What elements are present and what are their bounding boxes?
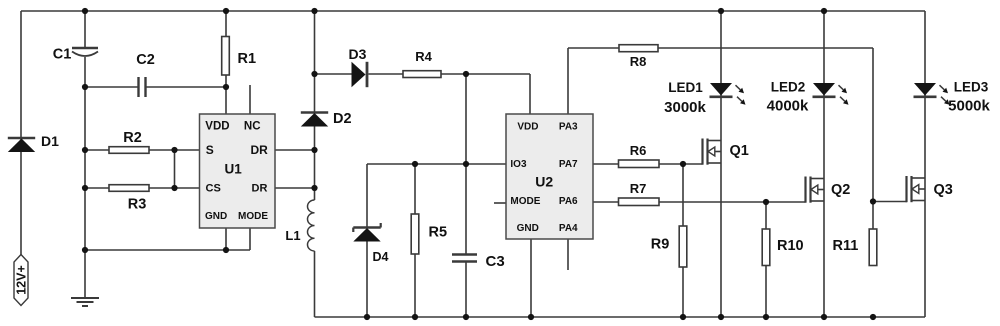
svg-text:S: S	[206, 143, 214, 157]
svg-text:GND: GND	[517, 223, 539, 234]
svg-text:D2: D2	[333, 111, 352, 127]
svg-text:D3: D3	[349, 46, 367, 62]
svg-text:R9: R9	[651, 237, 670, 253]
svg-text:LED3: LED3	[954, 80, 989, 95]
svg-text:MODE: MODE	[238, 211, 268, 222]
svg-text:IO3: IO3	[510, 159, 527, 170]
svg-text:CS: CS	[206, 183, 221, 195]
svg-text:LED1: LED1	[668, 80, 703, 95]
svg-text:4000k: 4000k	[767, 98, 809, 115]
svg-text:Q3: Q3	[934, 182, 953, 198]
svg-text:U2: U2	[535, 174, 553, 190]
svg-text:R3: R3	[128, 197, 147, 213]
svg-text:D4: D4	[373, 250, 389, 264]
svg-text:R4: R4	[415, 49, 432, 64]
svg-text:5000k: 5000k	[948, 98, 990, 115]
svg-text:R2: R2	[123, 130, 142, 146]
svg-text:C1: C1	[53, 47, 72, 63]
svg-text:NC: NC	[244, 120, 261, 132]
svg-text:VDD: VDD	[517, 122, 538, 133]
svg-text:R6: R6	[630, 143, 647, 158]
svg-text:PA4: PA4	[559, 223, 578, 234]
svg-text:R5: R5	[429, 225, 448, 241]
svg-text:Q2: Q2	[831, 182, 850, 198]
svg-text:DR: DR	[251, 143, 269, 157]
svg-text:R7: R7	[630, 181, 647, 196]
svg-text:C2: C2	[136, 52, 155, 68]
svg-text:PA6: PA6	[559, 196, 578, 207]
svg-text:R11: R11	[833, 238, 859, 254]
svg-text:PA3: PA3	[559, 122, 578, 133]
svg-text:GND: GND	[205, 211, 227, 222]
svg-text:Q1: Q1	[730, 143, 749, 159]
svg-text:LED2: LED2	[771, 80, 806, 95]
svg-text:R8: R8	[630, 54, 647, 69]
svg-text:R10: R10	[777, 238, 804, 254]
svg-text:DR: DR	[252, 183, 268, 195]
svg-text:U1: U1	[225, 162, 243, 177]
svg-text:L1: L1	[285, 228, 300, 243]
svg-text:PA7: PA7	[559, 159, 578, 170]
svg-text:MODE: MODE	[510, 196, 540, 207]
svg-text:D1: D1	[41, 133, 59, 149]
svg-text:C3: C3	[486, 253, 505, 270]
svg-text:12V+: 12V+	[15, 265, 29, 295]
svg-text:R1: R1	[238, 51, 257, 67]
svg-text:3000k: 3000k	[664, 99, 706, 116]
svg-text:VDD: VDD	[205, 120, 229, 132]
